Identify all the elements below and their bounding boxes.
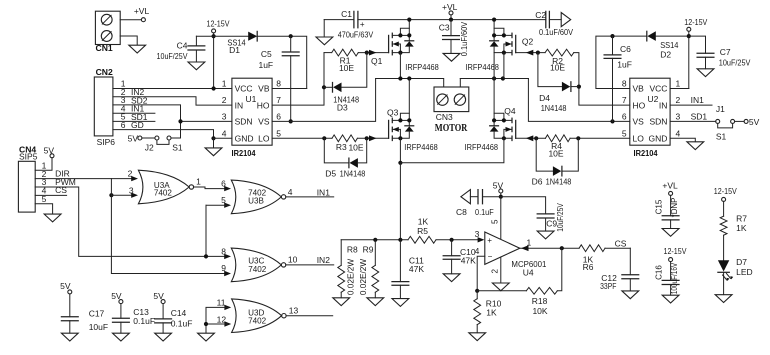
svg-text:CN3: CN3 bbox=[436, 112, 453, 122]
svg-text:J1: J1 bbox=[716, 104, 725, 114]
arrow U3B input 5 bbox=[224, 203, 231, 208]
svg-text:D4: D4 bbox=[539, 93, 550, 103]
capacitor C4 10uF/25V bbox=[157, 36, 205, 62]
wire U1 VS to bridge node A bbox=[272, 79, 376, 122]
svg-text:3: 3 bbox=[222, 111, 227, 121]
node U2 VS C6 bbox=[610, 119, 614, 123]
svg-text:IN: IN bbox=[235, 100, 244, 110]
svg-text:1K: 1K bbox=[486, 308, 497, 318]
wire R3 to Q3 gate bbox=[357, 137, 388, 139]
svg-text:1N4148: 1N4148 bbox=[541, 103, 567, 113]
svg-text:0.1uF: 0.1uF bbox=[475, 207, 494, 217]
wire U1 LO to R3 bbox=[272, 137, 332, 139]
svg-text:VB: VB bbox=[258, 84, 270, 94]
wire CS stub bbox=[35, 194, 66, 196]
node R4 gate D6 bbox=[534, 136, 538, 140]
svg-text:7402: 7402 bbox=[248, 265, 267, 274]
capacitor C6 1uF bootstrap bbox=[604, 36, 632, 121]
wire sense node to R5 row bbox=[399, 163, 401, 240]
wire 5V to C9 bbox=[501, 197, 546, 214]
terminal 5V op amp bbox=[493, 181, 504, 197]
wire U2 VB to bootstrap bbox=[596, 36, 646, 88]
svg-text:6: 6 bbox=[121, 120, 126, 130]
wire Q3 drain from node A bbox=[408, 79, 410, 121]
wire U2 GND to ground bbox=[670, 138, 695, 141]
nor gate U3B 7402 bbox=[221, 179, 293, 214]
svg-text:10uF: 10uF bbox=[89, 322, 108, 332]
arrow U3D input 11 bbox=[224, 305, 231, 310]
capacitor C17 10uF bbox=[60, 281, 108, 333]
resistor R8 0.02E/2W shunt bbox=[338, 240, 358, 298]
svg-text:1uF: 1uF bbox=[258, 60, 273, 70]
svg-text:VS: VS bbox=[258, 117, 270, 127]
terminal 5V at J2 bbox=[128, 133, 142, 143]
svg-text:3: 3 bbox=[676, 111, 681, 121]
arrow Q3 gate bbox=[369, 135, 377, 141]
svg-text:+VL: +VL bbox=[442, 2, 458, 12]
svg-text:C14: C14 bbox=[171, 308, 187, 318]
svg-text:0.02E/2W: 0.02E/2W bbox=[347, 258, 356, 295]
wire U1 HO to R1 network bbox=[272, 53, 324, 106]
node R3 left D5 bbox=[322, 136, 326, 140]
arrow U3B input 6 bbox=[224, 186, 231, 191]
resistor R7 1K bbox=[720, 214, 747, 236]
svg-text:1N4148: 1N4148 bbox=[340, 169, 366, 179]
svg-text:C1: C1 bbox=[341, 9, 352, 19]
ground at U3D inputs bbox=[198, 333, 215, 341]
svg-text:13: 13 bbox=[289, 305, 299, 315]
node R3 right D5 bbox=[365, 136, 369, 140]
svg-text:10: 10 bbox=[288, 255, 298, 265]
nor gate U3D 7402 bbox=[217, 298, 299, 333]
wire U3B output IN1 bbox=[286, 187, 334, 197]
svg-text:IN2: IN2 bbox=[317, 255, 331, 265]
wire R1 to Q1 gate bbox=[358, 52, 388, 54]
svg-text:C8: C8 bbox=[456, 207, 467, 217]
terminal +VL bbox=[134, 6, 150, 22]
node C6 top bbox=[610, 34, 614, 38]
wire op amp inverting input bbox=[477, 256, 485, 291]
svg-text:1uF: 1uF bbox=[617, 60, 632, 70]
ground at D7 bbox=[715, 295, 732, 303]
svg-text:R7: R7 bbox=[736, 214, 747, 224]
svg-text:J2: J2 bbox=[145, 143, 154, 153]
svg-text:4: 4 bbox=[222, 128, 227, 138]
svg-text:GD: GD bbox=[131, 120, 144, 130]
wire R6 to CS bbox=[605, 239, 630, 249]
svg-text:12-15V: 12-15V bbox=[207, 19, 230, 29]
node sense row bbox=[398, 161, 402, 165]
svg-text:D3: D3 bbox=[337, 103, 348, 113]
ground at C14 bbox=[155, 333, 172, 341]
wire op amp output bbox=[520, 247, 579, 249]
ground at C16 bbox=[662, 295, 679, 303]
arrow U3A input 2 bbox=[131, 176, 138, 181]
svg-text:R5: R5 bbox=[417, 226, 428, 236]
svg-text:2: 2 bbox=[490, 269, 499, 274]
svg-text:5V: 5V bbox=[44, 145, 55, 155]
svg-text:33PF: 33PF bbox=[600, 281, 616, 291]
svg-text:CS: CS bbox=[615, 239, 627, 249]
capacitor C5 1uF bootstrap bbox=[258, 36, 299, 121]
connector CN3 motor terminal bbox=[434, 87, 469, 134]
capacitor C13 0.1uF bbox=[111, 291, 155, 333]
pin labels CN2 bbox=[121, 79, 148, 130]
svg-text:5V: 5V bbox=[749, 117, 760, 127]
node 12-15V junction bbox=[212, 34, 216, 38]
wire Q3 source to sense bbox=[399, 138, 401, 163]
svg-text:1: 1 bbox=[196, 177, 201, 187]
svg-text:SIP6: SIP6 bbox=[97, 137, 116, 147]
svg-text:10E: 10E bbox=[339, 63, 354, 73]
svg-text:C5: C5 bbox=[261, 49, 272, 59]
svg-text:4: 4 bbox=[676, 128, 681, 138]
wire 12-15V node to D1 and C4 bbox=[196, 35, 248, 37]
ground at C15 bbox=[662, 229, 679, 237]
node R5 C11 bbox=[398, 238, 402, 242]
capacitor C15 DNP bbox=[655, 198, 679, 229]
node Q1 drain rail bbox=[407, 18, 411, 22]
capacitor C16 100uF/16V bbox=[655, 262, 679, 295]
node R5 C10 bbox=[450, 238, 454, 242]
wire U2 SDN SD1 bbox=[670, 112, 716, 122]
wire D1 cathode to C5 and VB bbox=[257, 36, 307, 88]
node GND junction U1 bbox=[211, 136, 215, 140]
svg-text:−: − bbox=[488, 252, 493, 261]
svg-text:IRFP4468: IRFP4468 bbox=[404, 142, 438, 152]
arrow Q4 gate bbox=[526, 135, 534, 141]
svg-text:470uF/63V: 470uF/63V bbox=[338, 30, 374, 40]
node R2 gate D4 bbox=[536, 51, 540, 55]
ground at R9 bbox=[367, 298, 384, 306]
ground at C4 bbox=[188, 62, 205, 70]
svg-text:IN: IN bbox=[659, 100, 668, 110]
svg-text:7: 7 bbox=[276, 95, 281, 105]
ground at C12 bbox=[622, 291, 639, 299]
svg-text:SIP5: SIP5 bbox=[19, 152, 38, 162]
gate driver U2 IR2104 bbox=[622, 78, 681, 158]
wire Q2 source to node B bbox=[503, 53, 505, 79]
svg-text:LO: LO bbox=[633, 134, 645, 144]
svg-text:LO: LO bbox=[258, 134, 270, 144]
wire R5 to op amp bbox=[436, 239, 480, 241]
svg-text:0.1uF: 0.1uF bbox=[133, 316, 155, 326]
capacitor C9 10uF/25V bbox=[537, 203, 565, 232]
svg-text:D1: D1 bbox=[229, 45, 240, 55]
wire Q2 body diode to node B bbox=[493, 53, 495, 79]
arrow Q2 gate bbox=[526, 50, 534, 56]
wire U3D inputs to ground bbox=[206, 307, 228, 333]
wire R8 R9 top row bbox=[341, 239, 408, 241]
capacitor C10 47K bbox=[443, 240, 476, 274]
svg-text:47K: 47K bbox=[461, 255, 476, 265]
resistor R18 10K bbox=[477, 248, 562, 316]
svg-text:1N4148: 1N4148 bbox=[546, 177, 572, 187]
resistor R1 10E bbox=[324, 49, 358, 73]
svg-text:U4: U4 bbox=[523, 268, 534, 278]
resistor R5 1K bbox=[408, 217, 436, 244]
svg-text:10uF/25V: 10uF/25V bbox=[719, 58, 751, 67]
svg-text:+VL: +VL bbox=[134, 6, 150, 16]
svg-text:LED: LED bbox=[736, 267, 753, 277]
terminal 12-15V C16 bbox=[664, 246, 687, 281]
svg-text:10uF/25V: 10uF/25V bbox=[157, 51, 188, 61]
node B junctions bbox=[492, 76, 496, 80]
svg-text:1K: 1K bbox=[736, 223, 747, 233]
terminal 12-15V right bbox=[684, 17, 707, 89]
wire D7 to ground bbox=[723, 272, 725, 294]
svg-text:8: 8 bbox=[622, 79, 627, 89]
terminal 5V CN4 bbox=[44, 145, 55, 157]
wire R7 to D7 bbox=[723, 235, 725, 260]
svg-text:C17: C17 bbox=[89, 309, 105, 319]
svg-text:IN1: IN1 bbox=[317, 187, 331, 197]
ground at op amp pin2 bbox=[492, 283, 509, 291]
terminal 12-15V LED bbox=[714, 186, 737, 216]
node 12-15V right bbox=[687, 34, 691, 38]
svg-text:HO: HO bbox=[257, 100, 270, 110]
connector CN1 screw terminal bbox=[95, 11, 120, 53]
svg-text:6: 6 bbox=[622, 111, 627, 121]
svg-text:R18: R18 bbox=[532, 296, 548, 306]
wire CN2 pin5 SD1 stub bbox=[113, 120, 155, 122]
resistor R6 1K bbox=[579, 245, 605, 272]
wire CN2 pin3 SD2 to U1 SDN bbox=[113, 105, 181, 138]
resistor R4 10E bbox=[545, 135, 570, 159]
svg-text:U2: U2 bbox=[648, 94, 659, 104]
wire Q4 source to sense row bbox=[400, 138, 504, 163]
ground at C3 bbox=[443, 53, 460, 61]
svg-text:GND: GND bbox=[235, 134, 254, 144]
svg-text:+VL: +VL bbox=[662, 180, 678, 190]
wire U2 VCC bbox=[670, 88, 689, 90]
wire CN4 pin1 to 5V bbox=[35, 158, 52, 170]
svg-text:MOTOR: MOTOR bbox=[435, 122, 468, 134]
resistor R9 0.02E/2W shunt bbox=[359, 240, 378, 298]
svg-text:1: 1 bbox=[222, 79, 227, 89]
svg-text:C4: C4 bbox=[177, 41, 188, 51]
svg-text:5V: 5V bbox=[128, 133, 139, 143]
arrow U3D input 12 bbox=[224, 321, 231, 326]
diode D7 LED bbox=[718, 257, 753, 281]
node SD2-SDN junction bbox=[178, 119, 182, 123]
wire U3A out to U3B bbox=[193, 187, 227, 189]
jumper J1 S1 bbox=[716, 104, 744, 141]
svg-text:2: 2 bbox=[222, 95, 227, 105]
capacitor C7 10uF/25V bbox=[689, 36, 751, 69]
node U3D input tie bbox=[204, 322, 208, 326]
op-amp U4 MCP6001 bbox=[475, 229, 547, 277]
wire U2 IN IN1 bbox=[670, 95, 712, 105]
wire op amp pin2 to ground bbox=[500, 257, 502, 283]
arrow U3C input 8 bbox=[224, 254, 231, 259]
node rail C3 bbox=[449, 18, 453, 22]
svg-text:12-15V: 12-15V bbox=[664, 246, 687, 256]
transistor Q2 IRFP4468 high side right with body diode bbox=[465, 20, 533, 72]
node Q2 drain rail bbox=[492, 18, 496, 22]
ground at C10 bbox=[443, 274, 460, 282]
diode D6 1N4148 bbox=[532, 138, 579, 186]
svg-text:10K: 10K bbox=[532, 306, 547, 316]
svg-text:D6: D6 bbox=[532, 177, 543, 187]
capacitor C14 0.1uF bbox=[153, 291, 192, 333]
terminal 5V right bbox=[744, 117, 760, 127]
wire PWM to U3C pin8 bbox=[35, 187, 227, 256]
svg-text:VS: VS bbox=[633, 117, 645, 127]
wire DIR branch to U3A pin3 and U3C pin9 bbox=[111, 179, 227, 274]
svg-text:VB: VB bbox=[633, 84, 645, 94]
ground at R10 bbox=[469, 333, 486, 341]
svg-text:IRFP4468: IRFP4468 bbox=[465, 142, 499, 152]
svg-text:IR2104: IR2104 bbox=[634, 148, 658, 158]
svg-text:7402: 7402 bbox=[154, 189, 173, 198]
arrow U3A input 3 bbox=[131, 193, 138, 198]
arrow Q1 gate bbox=[369, 50, 377, 56]
diode D4 1N4148 bbox=[538, 53, 579, 114]
wire CN2 pin4 IN1 stub bbox=[113, 112, 155, 114]
wire CN2 pin6 GD to U1 GND bbox=[113, 130, 214, 139]
wire Q2 gate to R2 bbox=[516, 52, 545, 54]
svg-text:SS14: SS14 bbox=[660, 40, 678, 50]
svg-text:47K: 47K bbox=[409, 264, 424, 274]
svg-text:Q4: Q4 bbox=[504, 106, 516, 116]
svg-text:Q1: Q1 bbox=[371, 56, 383, 66]
svg-text:Q3: Q3 bbox=[387, 107, 399, 117]
arrow op amp output bbox=[521, 245, 529, 251]
ground at C17 bbox=[61, 333, 78, 341]
resistor R2 10E bbox=[545, 49, 574, 72]
capacitor C1 470uF/63V bbox=[324, 9, 373, 39]
svg-text:R3: R3 bbox=[336, 142, 347, 152]
svg-text:8: 8 bbox=[276, 79, 281, 89]
svg-text:C7: C7 bbox=[720, 47, 731, 57]
transistor Q3 IRFP4468 low side left with body diode bbox=[387, 107, 438, 152]
ground at C1 bbox=[323, 20, 325, 37]
resistor R10 1K bbox=[474, 291, 502, 333]
svg-text:HO: HO bbox=[633, 100, 646, 110]
node VCC junction bbox=[212, 86, 216, 90]
wire 12-15V to VCC rail U1 bbox=[213, 33, 215, 89]
ground at CN1 bbox=[129, 45, 146, 53]
svg-text:VCC: VCC bbox=[649, 84, 667, 94]
node R1 D3 right bbox=[365, 51, 369, 55]
node feedback bbox=[475, 289, 479, 293]
svg-text:U3B: U3B bbox=[248, 197, 264, 206]
svg-text:6: 6 bbox=[276, 111, 281, 121]
arrow op amp input 3 bbox=[478, 237, 485, 242]
ground at C2 sideways bbox=[561, 13, 571, 27]
svg-text:5: 5 bbox=[622, 128, 627, 138]
svg-text:C15: C15 bbox=[655, 199, 664, 214]
connector CN4 SIP5 bbox=[18, 144, 37, 212]
terminal +VL C15 bbox=[662, 180, 678, 216]
ground at C8 sideways bbox=[461, 190, 471, 204]
capacitor C12 33PF bbox=[600, 248, 639, 291]
transistor Q4 IRFP4468 low side right with body diode bbox=[465, 79, 516, 153]
svg-text:10E: 10E bbox=[548, 149, 563, 159]
capacitor C2 0.1uF/60V bbox=[535, 10, 573, 37]
ground at U2 GND bbox=[687, 142, 704, 150]
capacitor C11 47K bbox=[392, 240, 424, 299]
svg-text:C3: C3 bbox=[439, 23, 450, 33]
node 5V C8 bbox=[499, 195, 503, 199]
svg-text:10E: 10E bbox=[550, 62, 565, 72]
wire U3D output bbox=[286, 315, 333, 317]
svg-text:4: 4 bbox=[288, 187, 293, 197]
svg-text:7402: 7402 bbox=[248, 317, 267, 326]
svg-text:D2: D2 bbox=[660, 50, 671, 60]
wire bridge node A bbox=[376, 79, 444, 88]
node R9 top bbox=[373, 238, 377, 242]
wire CN2 pin1 to U1 VCC bbox=[113, 88, 232, 90]
ground at CN4 bbox=[44, 214, 61, 222]
wire U3C output IN2 bbox=[286, 255, 334, 265]
node C5 to VS bbox=[289, 119, 293, 123]
svg-text:0.1uF/60V: 0.1uF/60V bbox=[539, 27, 573, 37]
svg-text:IR2104: IR2104 bbox=[232, 148, 256, 158]
wire R2 to U2 HO bbox=[574, 53, 630, 106]
wire U1 VB bbox=[272, 88, 307, 90]
svg-text:11: 11 bbox=[217, 298, 226, 308]
svg-text:10E: 10E bbox=[348, 143, 363, 153]
wire U3B pin5 PWM link bbox=[206, 204, 228, 206]
diode D2 SS14 bbox=[647, 31, 689, 59]
wire DIR to U3A bbox=[35, 178, 131, 180]
svg-text:R9: R9 bbox=[363, 244, 374, 254]
svg-text:D7: D7 bbox=[736, 257, 747, 267]
nor gate U3C 7402 bbox=[221, 246, 297, 281]
svg-text:+: + bbox=[360, 20, 365, 29]
svg-text:100uF/16V: 100uF/16V bbox=[670, 262, 679, 294]
svg-text:S1: S1 bbox=[172, 143, 183, 153]
wire bridge node B bbox=[459, 79, 461, 88]
svg-text:IRFP4468: IRFP4468 bbox=[405, 62, 439, 72]
capacitor C3 0.1uF/60V bbox=[439, 20, 469, 57]
ground at C9 bbox=[537, 231, 554, 239]
svg-text:D5: D5 bbox=[325, 169, 336, 179]
svg-text:CN1: CN1 bbox=[96, 43, 113, 53]
svg-text:SD1: SD1 bbox=[691, 112, 708, 122]
diode D5 1N4148 bbox=[324, 138, 366, 178]
svg-text:+: + bbox=[487, 236, 492, 245]
svg-text:SDN: SDN bbox=[649, 117, 667, 127]
svg-text:GND: GND bbox=[649, 134, 668, 144]
connector CN2 SIP6 bbox=[94, 67, 115, 147]
svg-text:*DNP: *DNP bbox=[670, 198, 679, 218]
svg-text:C16: C16 bbox=[655, 265, 664, 280]
svg-text:C2: C2 bbox=[535, 10, 546, 20]
node R4 right D6 bbox=[576, 136, 580, 140]
wire CN4 pin5 to ground bbox=[35, 204, 52, 214]
svg-text:10uF/25V: 10uF/25V bbox=[556, 203, 565, 232]
ground at R8 bbox=[333, 298, 350, 306]
svg-text:0.1uF: 0.1uF bbox=[171, 318, 193, 328]
svg-text:VCC: VCC bbox=[235, 84, 253, 94]
wire R4 to U2 LO bbox=[570, 137, 630, 139]
svg-text:C6: C6 bbox=[620, 44, 631, 54]
svg-text:2: 2 bbox=[676, 95, 681, 105]
node output R18 bbox=[560, 246, 564, 250]
svg-text:7: 7 bbox=[622, 95, 627, 105]
svg-text:4: 4 bbox=[475, 246, 480, 256]
wire CN1 pin1 to +VL bbox=[120, 19, 141, 21]
node DIR branch bbox=[109, 193, 113, 197]
arrow U3C input 9 bbox=[224, 271, 231, 276]
svg-text:5: 5 bbox=[490, 219, 499, 224]
pin labels CN4 bbox=[42, 160, 76, 204]
ground at C11 bbox=[392, 299, 409, 307]
svg-text:S1: S1 bbox=[716, 131, 727, 141]
